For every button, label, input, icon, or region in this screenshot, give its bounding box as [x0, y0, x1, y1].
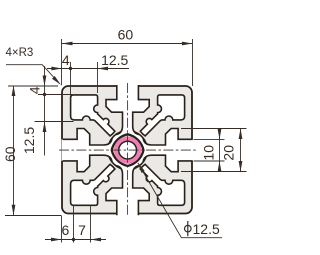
svg-text:12.5: 12.5	[101, 52, 128, 68]
leader phi 12.5	[138, 163, 222, 238]
corner pocket TL	[71, 95, 115, 136]
bore highlight (pink)	[116, 139, 139, 162]
T-slot left face	[61, 129, 115, 172]
dim 4 / 12.5 top	[47, 68, 129, 70]
center cavity ring	[108, 131, 147, 170]
svg-text:7: 7	[78, 222, 86, 238]
corner pocket BR	[140, 164, 184, 205]
T-slot bottom face	[106, 162, 149, 216]
dim 60 top	[62, 43, 192, 45]
dim 4 / 12.5 left	[44, 66, 46, 156]
T-slot top face	[106, 84, 149, 138]
corner pocket BL	[71, 164, 115, 205]
dim 6 / 7 bottom	[45, 239, 106, 241]
svg-text:60: 60	[118, 26, 134, 42]
dim 20 right	[240, 129, 242, 172]
svg-text:6: 6	[62, 222, 70, 238]
hub ring	[112, 134, 144, 166]
dim 10 right	[219, 129, 221, 172]
svg-text:60: 60	[2, 146, 18, 162]
svg-text:20: 20	[221, 145, 237, 161]
dim 60 left	[13, 86, 15, 216]
svg-text:10: 10	[201, 145, 217, 161]
svg-text:4: 4	[27, 86, 43, 94]
svg-text:12.5: 12.5	[193, 221, 220, 237]
svg-text:4: 4	[62, 52, 70, 68]
profile body (60x60 extrusion cross-section)	[62, 86, 192, 214]
centerline horizontal	[59, 149, 197, 151]
phi symbol	[185, 225, 192, 232]
svg-text:12.5: 12.5	[21, 127, 37, 154]
bore hole	[119, 141, 137, 159]
corner pocket TR	[140, 95, 184, 136]
centerline vertical	[127, 83, 129, 217]
T-slot right face	[140, 129, 194, 172]
svg-text:4×R3: 4×R3	[6, 47, 34, 59]
